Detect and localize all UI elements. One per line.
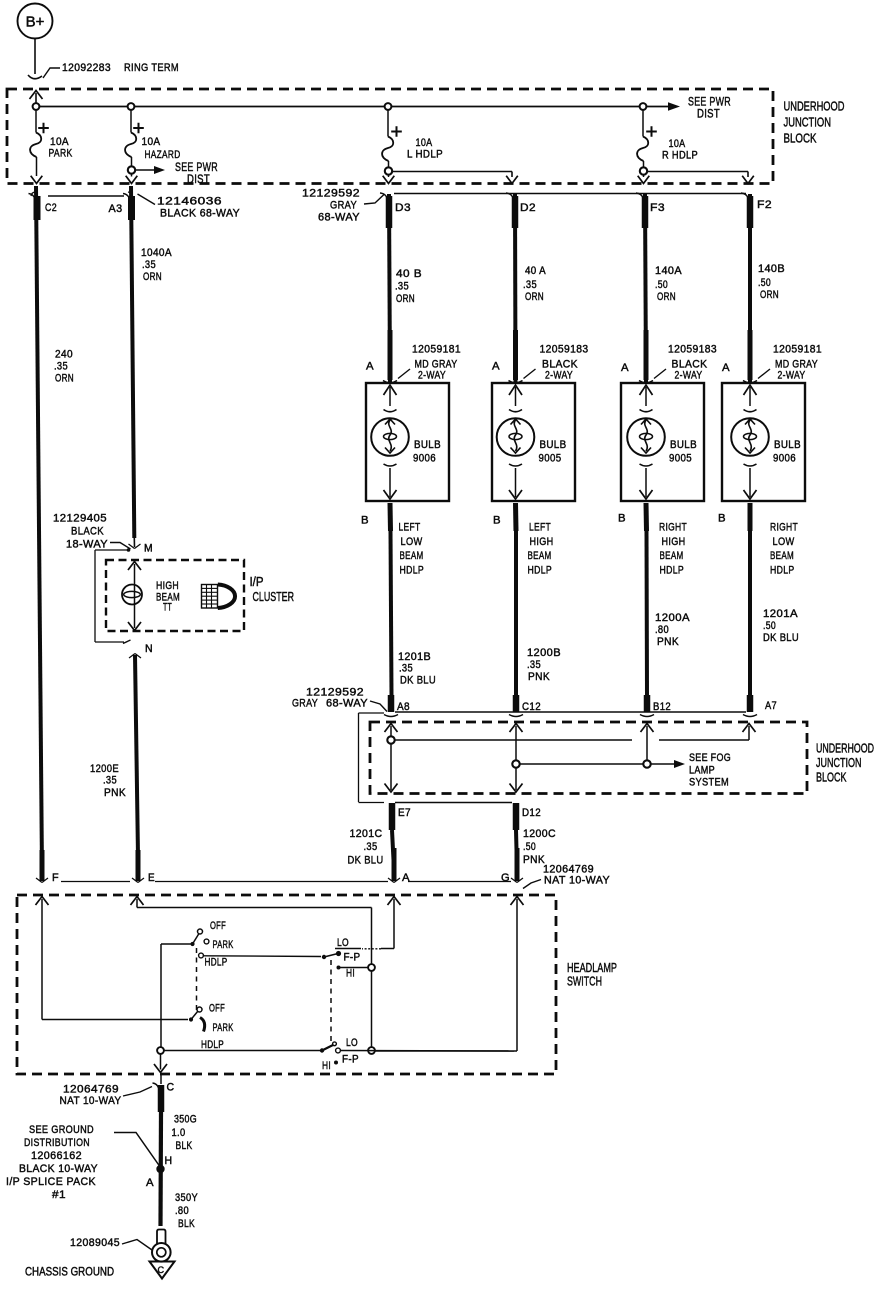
- svg-text:HDLP: HDLP: [205, 957, 228, 969]
- svg-text:9006: 9006: [413, 453, 436, 465]
- svg-text:DK BLU: DK BLU: [400, 675, 436, 687]
- bulb housing U3 right high beam: [621, 383, 704, 501]
- svg-text:12089045: 12089045: [70, 1237, 120, 1249]
- svg-text:JUNCTION: JUNCTION: [816, 755, 862, 770]
- svg-text:PNK: PNK: [523, 854, 545, 866]
- terminal stub B12: [644, 695, 651, 712]
- mechanical link dimmer (dashed): [330, 960, 332, 1042]
- bulb element U1 left low beam: [371, 385, 409, 499]
- svg-text:2-WAY: 2-WAY: [778, 370, 806, 382]
- svg-text:.35: .35: [54, 361, 68, 373]
- wire E inside switch: [131, 897, 144, 906]
- connector callout U4 right low beam: [758, 369, 770, 379]
- svg-text:A: A: [621, 362, 629, 374]
- svg-text:F: F: [52, 872, 59, 884]
- svg-text:BEAM: BEAM: [660, 550, 684, 562]
- svg-text:SEE GROUND: SEE GROUND: [29, 1124, 94, 1136]
- svg-text:PNK: PNK: [657, 636, 679, 648]
- svg-text:DISTRIBUTION: DISTRIBUTION: [24, 1137, 90, 1149]
- svg-text:12092283: 12092283: [62, 62, 111, 74]
- terminal stub A8: [388, 695, 395, 712]
- svg-text:2-WAY: 2-WAY: [545, 370, 573, 382]
- terminal stub B right high: [644, 503, 650, 531]
- svg-text:.35: .35: [103, 775, 117, 787]
- svg-text:H: H: [165, 1155, 173, 1167]
- svg-text:OFF: OFF: [209, 1003, 225, 1015]
- svg-text:HDLP: HDLP: [400, 565, 425, 577]
- svg-text:PARK: PARK: [49, 148, 73, 160]
- svg-text:C12: C12: [522, 701, 541, 713]
- svg-text:.50: .50: [523, 841, 536, 853]
- lower dimmer switch S2b (LO/F-P/HI): [163, 1050, 320, 1052]
- svg-text:A8: A8: [397, 701, 410, 713]
- svg-text:SEE FOG: SEE FOG: [689, 752, 731, 764]
- svg-text:.50: .50: [655, 279, 668, 291]
- svg-text:A: A: [722, 362, 730, 374]
- svg-text:RING TERM: RING TERM: [124, 62, 179, 74]
- connector bracket GRAY 68-WAY: [358, 713, 360, 802]
- svg-text:12129405: 12129405: [53, 513, 107, 525]
- svg-text:DK BLU: DK BLU: [348, 855, 384, 867]
- headlamp switch box (dashed): [17, 895, 556, 1074]
- terminal stub F2: [747, 196, 754, 228]
- ground junction node in switch: [157, 1047, 164, 1054]
- high beam icon: [202, 585, 218, 609]
- svg-text:.80: .80: [655, 624, 669, 636]
- svg-text:UNDERHOOD: UNDERHOOD: [816, 741, 874, 756]
- terminal stub F: [40, 850, 45, 881]
- svg-text:B: B: [361, 515, 369, 527]
- svg-text:.80: .80: [175, 1205, 189, 1217]
- wire B12 into block: [641, 724, 654, 733]
- bus wire in junction block: [36, 106, 669, 108]
- terminal stub E7: [389, 803, 396, 830]
- svg-text:12066162: 12066162: [31, 1150, 82, 1162]
- wire 1200B PNK: [514, 531, 518, 695]
- svg-text:F3: F3: [650, 202, 665, 214]
- svg-text:140B: 140B: [758, 263, 785, 275]
- svg-text:240: 240: [55, 349, 73, 361]
- bulb element U3 right high beam: [627, 385, 665, 499]
- svg-text:BLACK: BLACK: [71, 526, 104, 538]
- svg-text:12059181: 12059181: [412, 344, 461, 356]
- svg-text:ORN: ORN: [143, 271, 162, 283]
- svg-text:BULB: BULB: [670, 439, 697, 451]
- wire 1200A PNK: [645, 531, 650, 695]
- svg-text:1200C: 1200C: [523, 828, 556, 840]
- terminal stub E: [136, 850, 141, 881]
- svg-text:LAMP: LAMP: [689, 765, 715, 777]
- chassis ground symbol: [150, 1262, 175, 1279]
- svg-text:1201C: 1201C: [350, 828, 383, 840]
- svg-text:A3: A3: [109, 203, 123, 215]
- mechanical link upper (dashed): [196, 948, 198, 1014]
- svg-text:350G: 350G: [174, 1114, 197, 1126]
- terminal stub B left low: [388, 503, 394, 531]
- svg-text:HI: HI: [322, 1060, 331, 1072]
- terminal stub A7: [747, 695, 754, 712]
- svg-text:BULB: BULB: [414, 439, 441, 451]
- svg-text:I/P: I/P: [250, 574, 264, 589]
- svg-text:9006: 9006: [773, 453, 796, 465]
- wire 1040A ORN (A3 to M): [131, 186, 134, 538]
- svg-text:C: C: [167, 1082, 175, 1094]
- svg-text:CHASSIS GROUND: CHASSIS GROUND: [25, 1265, 114, 1279]
- svg-text:OFF: OFF: [210, 920, 226, 932]
- svg-text:LEFT: LEFT: [529, 522, 551, 534]
- svg-text:SWITCH: SWITCH: [567, 974, 602, 989]
- svg-text:TT: TT: [163, 602, 172, 614]
- svg-text:10A: 10A: [669, 138, 686, 150]
- svg-text:B: B: [718, 513, 726, 525]
- wire A8 through block (node): [385, 724, 398, 733]
- svg-text:PARK: PARK: [213, 1022, 234, 1034]
- wire 1200E PNK (N to E): [129, 654, 141, 659]
- wire B+ to ring terminal: [34, 39, 36, 74]
- svg-text:.50: .50: [763, 620, 776, 632]
- svg-text:10A: 10A: [416, 137, 433, 149]
- underhood junction block 1 (dashed): [7, 89, 773, 184]
- svg-text:1040A: 1040A: [141, 247, 172, 259]
- svg-text:40 A: 40 A: [525, 265, 546, 277]
- svg-text:A: A: [492, 361, 500, 373]
- svg-text:BEAM: BEAM: [770, 550, 794, 562]
- svg-text:NAT 10-WAY: NAT 10-WAY: [544, 875, 610, 887]
- arrow feed into junction block: [30, 91, 43, 100]
- wire through cluster: [128, 562, 141, 571]
- wire 350G BLK: [158, 1112, 163, 1226]
- svg-text:ORN: ORN: [396, 293, 415, 305]
- svg-text:UNDERHOOD: UNDERHOOD: [784, 99, 845, 114]
- svg-text:JUNCTION: JUNCTION: [784, 115, 832, 130]
- terminal stub C: [158, 1085, 165, 1112]
- svg-text:HIGH: HIGH: [530, 536, 554, 548]
- bulb element U4 right low beam: [731, 385, 769, 499]
- wire C12 through block (node): [510, 724, 523, 733]
- svg-text:A: A: [366, 361, 374, 373]
- svg-text:12064769: 12064769: [63, 1084, 119, 1096]
- svg-text:BLK: BLK: [176, 1140, 193, 1152]
- svg-text:GRAY: GRAY: [292, 698, 318, 710]
- svg-text:1201A: 1201A: [763, 608, 798, 620]
- connector line E7-D12: [395, 802, 512, 804]
- high beam indicator lamp: [122, 585, 142, 605]
- svg-text:DK BLU: DK BLU: [763, 632, 799, 644]
- wire 140B ORN (F2 to right low bulb): [748, 194, 752, 382]
- svg-text:HIGH: HIGH: [662, 536, 686, 548]
- connector line F-E-A-G: [61, 881, 130, 883]
- branch L HDLP to F2 feed: [392, 171, 512, 173]
- connector callout U1 left low beam: [398, 369, 410, 379]
- connector 12129592 D3-D2-F3-F2 line: [394, 193, 746, 195]
- svg-text:2-WAY: 2-WAY: [418, 370, 446, 382]
- svg-text:12146036: 12146036: [157, 196, 222, 208]
- svg-text:E: E: [148, 872, 155, 884]
- svg-text:.35: .35: [523, 279, 537, 291]
- fuse 10A L HDLP: [387, 110, 389, 137]
- lower headlamp switch S1b (OFF/PARK/HDLP): [197, 1007, 202, 1012]
- connector 12146036 C2-A3 line: [48, 195, 124, 197]
- svg-text:.35: .35: [364, 841, 378, 853]
- svg-text:SYSTEM: SYSTEM: [689, 777, 729, 789]
- upper dimmer switch S2 (LO/F-P/HI): [335, 948, 361, 950]
- svg-text:BULB: BULB: [540, 439, 567, 451]
- svg-text:HDLP: HDLP: [201, 1039, 224, 1051]
- fuse 10A HAZARD: [130, 110, 132, 133]
- terminal stub B right low: [748, 503, 753, 531]
- svg-text:ORN: ORN: [657, 291, 676, 303]
- terminal stub C12: [513, 695, 520, 712]
- terminal stub C2: [34, 196, 41, 220]
- terminal stub D12: [513, 803, 520, 830]
- bulb element U2 left high beam: [497, 385, 535, 499]
- terminal stub D2: [512, 196, 519, 228]
- svg-text:LEFT: LEFT: [399, 522, 421, 534]
- svg-text:10A: 10A: [142, 136, 161, 148]
- svg-text:BLOCK: BLOCK: [784, 131, 817, 146]
- svg-text:E7: E7: [398, 807, 411, 819]
- svg-text:F-P: F-P: [344, 952, 361, 964]
- wire G inside switch: [511, 897, 524, 906]
- svg-text:RIGHT: RIGHT: [770, 522, 798, 534]
- svg-text:GRAY: GRAY: [330, 200, 357, 212]
- svg-text:140A: 140A: [655, 265, 682, 277]
- terminal stub A U1 left low beam: [388, 330, 393, 380]
- wire 1201C DK BLU (E7 to A): [392, 830, 394, 870]
- svg-text:CLUSTER: CLUSTER: [253, 589, 295, 604]
- wire 40B ORN (D3 to left low bulb): [389, 194, 390, 382]
- svg-text:LO: LO: [346, 1037, 358, 1049]
- terminal stub A3: [128, 196, 135, 220]
- svg-text:10A: 10A: [50, 136, 69, 148]
- svg-text:1201B: 1201B: [398, 651, 431, 663]
- wire A inside switch: [388, 897, 401, 906]
- svg-text:M: M: [144, 543, 153, 555]
- svg-text:.35: .35: [399, 663, 413, 675]
- svg-text:BULB: BULB: [774, 439, 801, 451]
- wire 140A ORN (F3 to right high bulb): [645, 194, 646, 382]
- svg-text:HDLP: HDLP: [770, 565, 795, 577]
- svg-text:D2: D2: [520, 202, 536, 214]
- svg-text:ORN: ORN: [760, 289, 779, 301]
- svg-text:HIGH: HIGH: [156, 580, 179, 592]
- svg-text:9005: 9005: [669, 453, 692, 465]
- svg-text:NAT 10-WAY: NAT 10-WAY: [60, 1095, 122, 1107]
- bus junction nodes: [33, 103, 40, 110]
- terminal stub A U4 right low beam: [748, 330, 753, 380]
- svg-text:F-P: F-P: [342, 1054, 359, 1066]
- tie line high beams C12-B12 and fog lamp feed: [519, 763, 675, 765]
- svg-text:B+: B+: [26, 14, 45, 31]
- svg-text:BEAM: BEAM: [528, 550, 552, 562]
- svg-text:1200A: 1200A: [655, 612, 690, 624]
- node ring upper: [368, 964, 375, 971]
- wire 1201B DK BLU: [391, 531, 392, 695]
- bulb housing U1 left low beam: [366, 383, 449, 501]
- svg-text:B12: B12: [653, 701, 671, 713]
- bulb housing U4 right low beam: [722, 383, 805, 501]
- svg-text:#1: #1: [52, 1189, 66, 1201]
- terminal stub D3: [386, 196, 393, 228]
- svg-text:ORN: ORN: [525, 291, 544, 303]
- wire 1201A DK BLU: [748, 531, 752, 695]
- svg-text:BLACK 10-WAY: BLACK 10-WAY: [19, 1163, 98, 1175]
- svg-text:I/P SPLICE PACK: I/P SPLICE PACK: [6, 1176, 96, 1188]
- svg-text:.50: .50: [758, 277, 771, 289]
- tie line low beams A8-A7: [394, 739, 632, 741]
- svg-text:.35: .35: [395, 281, 409, 293]
- bulb housing U2 left high beam: [492, 383, 575, 501]
- svg-text:HDLP: HDLP: [660, 565, 685, 577]
- svg-text:1200E: 1200E: [90, 763, 119, 775]
- svg-text:DIST: DIST: [187, 172, 210, 186]
- svg-text:PNK: PNK: [104, 787, 126, 799]
- svg-text:68-WAY: 68-WAY: [318, 212, 360, 224]
- connector callout 12146036 BLACK 68-WAY: [138, 194, 156, 205]
- upper headlamp switch S1 (OFF/PARK/HDLP): [198, 929, 203, 934]
- fuse 10A PARK: [35, 110, 37, 133]
- svg-text:12059183: 12059183: [668, 344, 717, 356]
- connector line A8-C12-B12-A7: [395, 711, 746, 713]
- wire F inside switch: [36, 897, 49, 906]
- svg-text:18-WAY: 18-WAY: [66, 539, 108, 551]
- svg-text:12059183: 12059183: [540, 344, 589, 356]
- svg-text:F2: F2: [757, 199, 772, 211]
- svg-text:.35: .35: [527, 659, 541, 671]
- branch R HDLP to F2 feed: [647, 171, 748, 173]
- underhood junction block 2 (dashed): [370, 722, 807, 794]
- terminal stub A U3 right high beam: [644, 330, 649, 380]
- wire 40A ORN (D2 to left high bulb): [513, 194, 518, 382]
- terminal stub F3: [642, 196, 649, 228]
- svg-text:12059181: 12059181: [773, 344, 822, 356]
- svg-text:L HDLP: L HDLP: [407, 149, 443, 161]
- svg-text:LOW: LOW: [773, 536, 795, 548]
- svg-text:LOW: LOW: [401, 536, 423, 548]
- svg-text:LO: LO: [337, 937, 349, 949]
- svg-text:C: C: [158, 1265, 165, 1275]
- wire 1200C PNK (D12 to G): [516, 830, 517, 870]
- connector callout U2 left high beam: [524, 369, 536, 379]
- wire 240 ORN (C2): [36, 186, 42, 872]
- svg-text:12129592: 12129592: [302, 188, 360, 200]
- svg-text:350Y: 350Y: [175, 1192, 198, 1204]
- connector callout U3 right high beam: [654, 369, 666, 379]
- svg-text:B: B: [493, 515, 501, 527]
- svg-text:DIST: DIST: [697, 107, 720, 121]
- svg-text:A: A: [402, 872, 410, 884]
- svg-text:B: B: [618, 513, 626, 525]
- svg-text:BLK: BLK: [178, 1218, 195, 1230]
- svg-text:.35: .35: [142, 259, 156, 271]
- svg-text:BLOCK: BLOCK: [816, 770, 847, 785]
- svg-text:A7: A7: [765, 700, 777, 712]
- svg-text:HI: HI: [346, 968, 355, 980]
- terminal stub A U2 left high beam: [513, 330, 518, 380]
- ring terminal callout 12092283: [43, 68, 60, 78]
- svg-text:9005: 9005: [539, 453, 562, 465]
- I/P cluster box (dashed): [106, 560, 244, 631]
- terminal stub B left high: [513, 503, 519, 531]
- svg-text:D3: D3: [395, 202, 411, 214]
- terminal stub A (switch): [392, 848, 397, 881]
- svg-text:HDLP: HDLP: [528, 565, 553, 577]
- svg-text:BLACK 68-WAY: BLACK 68-WAY: [160, 208, 240, 220]
- node ring lower: [368, 1047, 375, 1054]
- svg-text:PNK: PNK: [528, 671, 550, 683]
- svg-text:1200B: 1200B: [527, 647, 561, 659]
- see pwr dist branch (hazard): [135, 169, 156, 171]
- connector bracket 18-WAY M-N: [94, 550, 96, 642]
- svg-text:D12: D12: [522, 807, 541, 819]
- svg-text:1.0: 1.0: [172, 1127, 186, 1139]
- svg-text:N: N: [145, 643, 153, 655]
- svg-text:PARK: PARK: [213, 939, 234, 951]
- svg-text:40 B: 40 B: [396, 268, 422, 280]
- svg-text:RIGHT: RIGHT: [659, 522, 687, 534]
- svg-text:BEAM: BEAM: [400, 550, 424, 562]
- wire switch to connector C: [160, 1075, 162, 1084]
- svg-text:G: G: [501, 872, 510, 884]
- svg-text:68-WAY: 68-WAY: [326, 698, 368, 710]
- svg-text:C2: C2: [45, 202, 57, 214]
- svg-text:ORN: ORN: [55, 373, 74, 385]
- svg-text:2-WAY: 2-WAY: [675, 370, 703, 382]
- battery B+ terminal: [18, 4, 53, 39]
- terminal stub G: [515, 848, 520, 881]
- svg-text:R HDLP: R HDLP: [662, 150, 698, 162]
- svg-text:A: A: [146, 1177, 154, 1189]
- fuse 10A R HDLP: [642, 110, 644, 137]
